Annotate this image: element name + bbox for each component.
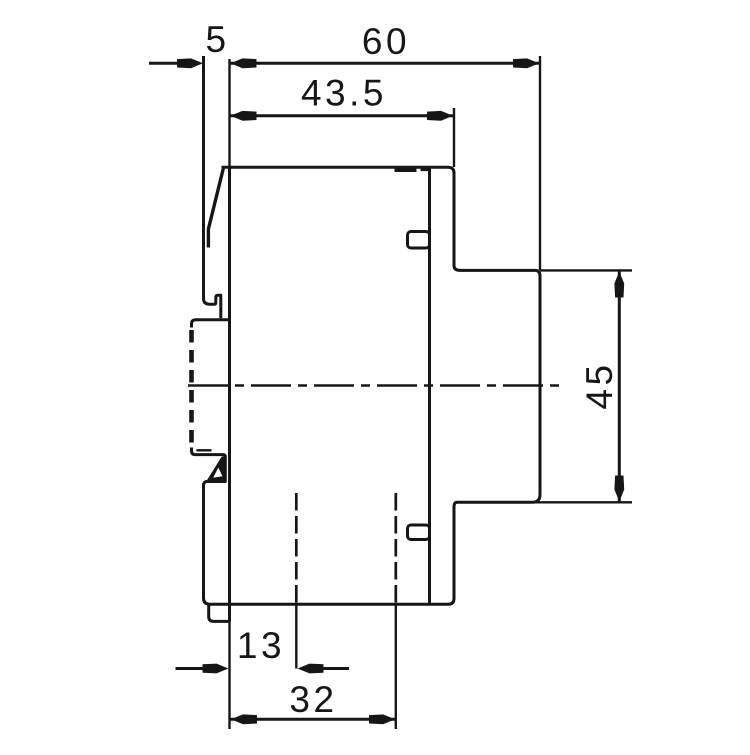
dim line 13 right arrow tail: [318, 667, 349, 670]
body left edge: [228, 167, 231, 621]
arrowhead 13 right (points left): [298, 664, 324, 674]
extension line 45 bottom: [532, 501, 632, 503]
arrowhead 13 left (points right): [203, 664, 229, 674]
hidden hole line right solid ext: [395, 604, 397, 729]
upper clip tab: [408, 232, 430, 249]
extension line of 43.5: [453, 108, 455, 167]
arrowhead 60 right (points right): [513, 58, 539, 68]
arrowhead 60 left (points left): [231, 58, 257, 68]
arrowhead 43.5 left: [231, 111, 257, 121]
top clip ledge: [192, 320, 230, 328]
lower clip tab: [408, 525, 430, 540]
bottom clip inner face: [197, 449, 212, 451]
dim line 60: [230, 62, 541, 65]
svg-text:13: 13: [237, 625, 285, 666]
bottom foot: [209, 604, 230, 621]
dim line 32: [230, 718, 396, 721]
left extension line full: [228, 59, 230, 729]
arrowhead 32 left (points left): [231, 714, 257, 724]
dim line 45: [618, 271, 621, 502]
svg-text:45: 45: [579, 361, 620, 409]
svg-text:60: 60: [362, 21, 410, 62]
arrowhead 43.5 right: [427, 111, 453, 121]
dim line 13 left arrow: [176, 667, 208, 670]
bottom DIN clip hook: [192, 448, 226, 486]
top edge tick marks: [421, 168, 432, 171]
release lever slant: [208, 169, 223, 248]
arrowhead 45 bottom (points down): [614, 476, 624, 502]
svg-text:43.5: 43.5: [301, 73, 387, 114]
arrowhead 45 top (points up): [614, 272, 624, 298]
internal face line: [428, 167, 431, 604]
left outer edge / extension of 5: [204, 56, 221, 318]
dim line 5 left arrow: [149, 62, 186, 65]
bottom clip wedge slant: [206, 457, 226, 483]
hidden hole line right dashed: [394, 493, 397, 604]
body outline main: [204, 167, 541, 604]
arrowhead 32 right (points right): [369, 714, 395, 724]
centerline: [188, 384, 566, 386]
hidden hole line left dashed: [295, 493, 298, 604]
dim line 43.5: [230, 114, 455, 117]
extension line 45 top: [540, 269, 632, 271]
svg-text:32: 32: [289, 679, 337, 720]
hidden hole line left solid ext: [295, 604, 297, 669]
arrowhead 5 (points right at x=203.5): [177, 58, 203, 68]
extension line right of 60: [539, 56, 541, 270]
hidden slider dashed line: [189, 330, 194, 446]
svg-text:5: 5: [205, 19, 229, 60]
top edge thick band: [395, 168, 417, 172]
